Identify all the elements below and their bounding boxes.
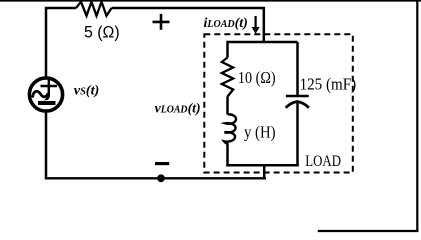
label 125 (mF) for C1 xyxy=(300,75,357,94)
label 10 (ohm) for R2 xyxy=(238,68,276,87)
wire: left vertical below source xyxy=(45,113,48,179)
wire: load internal top rail xyxy=(228,41,298,44)
wire: load internal bottom rail xyxy=(226,164,298,167)
wire: load bottom stub to main bottom wire xyxy=(263,165,266,178)
label y (H) for L1 xyxy=(244,123,276,142)
wire: top-left segment (source top to resistor R1) xyxy=(46,8,76,77)
label iLOAD(t) xyxy=(204,16,248,31)
resistor R1 5 ohm (zigzag, top wire) xyxy=(76,2,112,16)
capacitor C1 125 mF xyxy=(286,96,309,108)
svg-text:vS(t): vS(t) xyxy=(74,84,100,99)
resistor R2 10 ohm (vertical zigzag) xyxy=(222,58,233,97)
svg-text:125 (mF): 125 (mF) xyxy=(300,75,357,94)
node - (negative polarity mark) xyxy=(155,162,169,165)
svg-text:y (H): y (H) xyxy=(244,123,276,142)
label vs(t) xyxy=(74,84,100,99)
current arrow iLOAD (pointing down into load) xyxy=(252,16,260,34)
wire: top wire from R1 to load feed corner, down to load top xyxy=(112,8,264,42)
label LOAD xyxy=(305,153,341,170)
svg-text:10 (Ω): 10 (Ω) xyxy=(238,68,276,87)
label vLOAD(t) xyxy=(155,102,201,117)
wire: left branch upper (top rail to R2) xyxy=(226,41,229,58)
node + (positive polarity mark) xyxy=(153,14,170,30)
svg-text:vLOAD(t): vLOAD(t) xyxy=(155,102,201,117)
wire: right branch lower (C1 to bottom rail) xyxy=(296,103,299,167)
svg-text:LOAD: LOAD xyxy=(305,153,341,170)
junction dot on bottom wire xyxy=(157,174,165,182)
inductor L1 y (H) (coil) xyxy=(224,114,236,143)
wire: right branch upper (top rail to C1) xyxy=(296,42,299,96)
label 5 (ohm) for R1 xyxy=(84,24,120,42)
wire: bottom wire xyxy=(45,177,266,179)
svg-text:iLOAD(t): iLOAD(t) xyxy=(204,16,248,31)
AC voltage source VS xyxy=(29,78,62,111)
svg-text:5 (Ω): 5 (Ω) xyxy=(84,24,120,42)
wire: left branch lower (L1 to bottom rail) xyxy=(226,143,229,167)
wire: left branch middle (R2 to L1) xyxy=(226,97,229,115)
LOAD dashed box xyxy=(204,34,352,172)
